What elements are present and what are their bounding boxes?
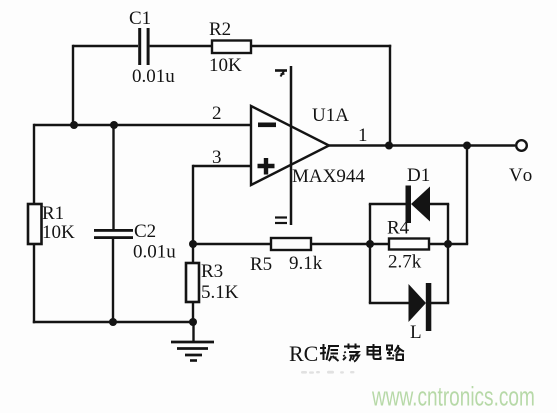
- wire pin 2 horizontal: [34, 124, 251, 126]
- diode D1 (cathode bar left, triangle pointing left): [406, 186, 431, 224]
- wire C2 branch lower vertical: [112, 239, 114, 322]
- wire right rail of diode block: [447, 204, 449, 303]
- wire C2 branch upper vertical: [112, 125, 114, 230]
- svg-text:10K: 10K: [209, 55, 242, 76]
- ground: [171, 322, 214, 361]
- wire right vertical down to output node: [389, 45, 391, 146]
- wire bottom branch left (rail to L): [369, 302, 409, 304]
- wire left rail upper (pin2 node down to R1): [33, 124, 35, 204]
- svg-text:2.7k: 2.7k: [388, 252, 422, 273]
- wire pin 3 horizontal: [193, 165, 251, 167]
- wire bottom horizontal: [33, 321, 193, 323]
- svg-text:C1: C1: [129, 8, 151, 29]
- svg-text:10K: 10K: [42, 222, 75, 243]
- svg-text:Vo: Vo: [509, 165, 535, 186]
- wire left rail lower (R1 to bottom wire): [33, 244, 35, 323]
- wire top branch left (rail to D1): [369, 203, 406, 205]
- output terminal Vo: [516, 140, 527, 151]
- svg-text:MAX944: MAX944: [292, 166, 365, 187]
- resistor R3: [186, 263, 199, 302]
- svg-text:R3: R3: [201, 261, 223, 282]
- capacitor C1: [138, 28, 149, 65]
- wire top branch right (D1 to rail): [430, 203, 449, 205]
- svg-text:9.1k: 9.1k: [289, 253, 323, 274]
- capacitor C2: [94, 229, 133, 239]
- node junction output (diode block branch): [463, 142, 471, 150]
- wire jog from branch vertical to right rail: [448, 243, 468, 245]
- node junction bottom (C2 branch): [109, 318, 117, 326]
- wire op-amp power pin vertical (pin 4 top, pin 11 bottom): [290, 66, 293, 225]
- svg-text:www.cntronics.com: www.cntronics.com: [371, 381, 535, 411]
- node junction on pin2 wire (left vertical): [70, 121, 78, 129]
- node junction right rail: [444, 240, 452, 248]
- op-amp U1A: [251, 106, 329, 185]
- wire bottom branch right (L to rail): [431, 302, 449, 304]
- wire R3 node down to R3: [192, 244, 194, 263]
- label pin 11 (rotated, appears as two bars): [275, 218, 287, 224]
- svg-text:RC: RC: [289, 341, 318, 366]
- svg-text:R4: R4: [387, 218, 410, 239]
- resistor R1: [28, 204, 42, 244]
- resistor R5: [271, 238, 311, 250]
- label title CJK char dian (电) drawn as strokes: [368, 344, 381, 359]
- svg-text:D1: D1: [407, 165, 430, 186]
- svg-text:5.1K: 5.1K: [201, 282, 239, 303]
- wire R2 to right corner: [251, 45, 391, 47]
- svg-text:0.01u: 0.01u: [133, 242, 176, 263]
- svg-text:3: 3: [212, 147, 222, 168]
- node junction left rail / R5: [366, 240, 374, 248]
- label title CJK char lu (路) drawn as strokes: [387, 345, 405, 360]
- node junction on pin2 wire (C2 branch): [110, 121, 118, 129]
- wire R5 to left rail of diode block: [311, 243, 370, 245]
- svg-text:R5: R5: [250, 254, 272, 275]
- svg-text:R1: R1: [42, 203, 64, 224]
- resistor R4: [389, 239, 429, 250]
- node junction pin3/R3/R5: [189, 240, 197, 248]
- label title CJK char zhen (振) drawn as strokes: [320, 344, 339, 361]
- faint smudge below title: [301, 371, 355, 374]
- label pin 4 (rotated): [275, 71, 287, 77]
- wire pin 3 vertical down to R5 node: [192, 165, 194, 244]
- node junction bottom (R3/ground): [189, 318, 197, 326]
- wire middle branch left (rail to R4): [370, 243, 389, 245]
- svg-text:R2: R2: [209, 19, 231, 40]
- resistor R2: [212, 41, 251, 54]
- svg-text:U1A: U1A: [312, 105, 349, 126]
- svg-text:C2: C2: [134, 221, 156, 242]
- wire branch vertical from output node down: [466, 146, 468, 245]
- wire middle branch right (R4 to rail): [429, 243, 448, 245]
- svg-text:0.01u: 0.01u: [132, 66, 175, 87]
- diode L (triangle pointing right, cathode bar right): [409, 283, 432, 331]
- wire C1 to R2: [150, 45, 212, 47]
- wire left rail of diode block: [369, 204, 371, 303]
- label title CJK char dang (荡) drawn as strokes: [343, 344, 360, 362]
- wire R3 to bottom node: [192, 302, 194, 322]
- wire left vertical from top wire down to node of pin2: [72, 45, 74, 125]
- wire output horizontal: [329, 144, 515, 146]
- svg-text:L: L: [410, 322, 422, 343]
- node junction output (feedback): [385, 142, 393, 150]
- svg-text:2: 2: [212, 103, 222, 124]
- svg-text:1: 1: [358, 125, 368, 146]
- wire R5 node to R5: [193, 243, 271, 245]
- wire top horizontal from left corner to C1: [73, 45, 138, 47]
